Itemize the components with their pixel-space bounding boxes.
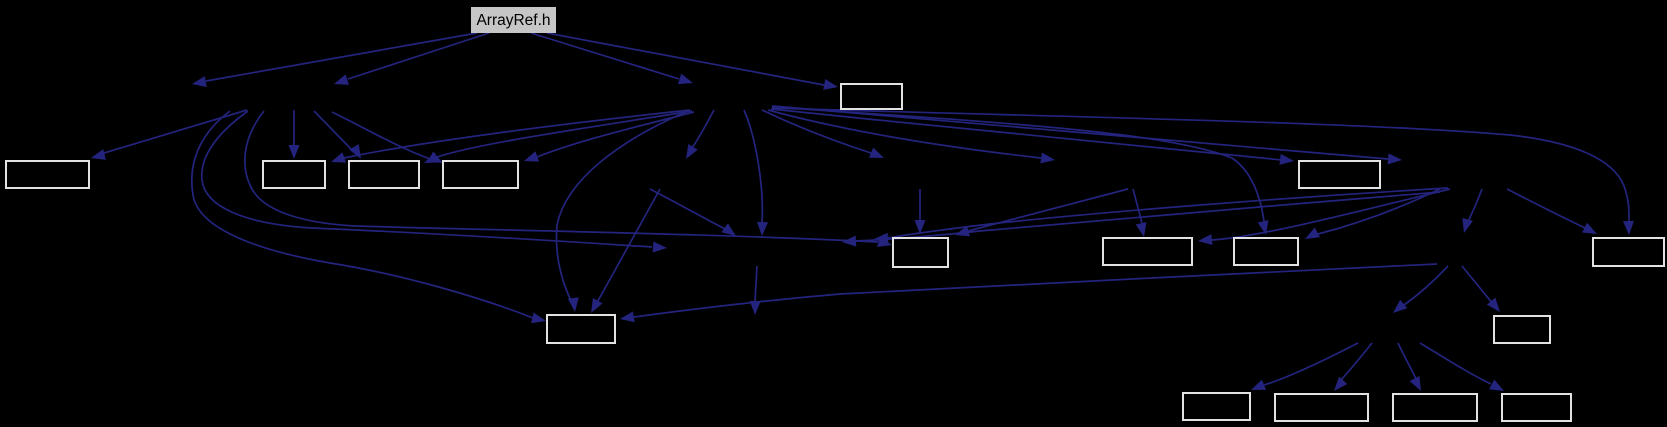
- wire root to node B: [348, 33, 489, 79]
- arrowhead into B3b right: [422, 152, 439, 168]
- box B3c: [443, 161, 518, 188]
- arrowhead into B7a right: [1197, 234, 1212, 246]
- arrowhead into B8 top (curve): [1623, 221, 1634, 235]
- arrowhead into F: [1459, 218, 1473, 234]
- box B11d: [1502, 394, 1571, 421]
- wire N5 to F: [1468, 189, 1482, 222]
- arrowhead into B11a: [1249, 380, 1266, 395]
- wire F to G: [1404, 266, 1448, 305]
- wire C to B9 top: [556, 111, 688, 303]
- box B8: [1593, 238, 1664, 266]
- arrowhead r1: [874, 233, 889, 245]
- wire C to D' top: [744, 110, 762, 222]
- arrowhead into B9 top (from D1): [586, 298, 602, 316]
- wire F to B10: [1462, 266, 1492, 303]
- arrowhead into B9 right: [619, 311, 635, 324]
- wire N5 to arrow r2: [856, 192, 1440, 241]
- wire G to B11d: [1420, 343, 1491, 384]
- wire B to B6 left: [245, 111, 878, 242]
- wire C to N5: [772, 106, 1388, 159]
- wire D1 to B9 top: [594, 189, 660, 308]
- wire B to B2: [104, 110, 247, 153]
- arrowhead into B3c right-top: [522, 151, 539, 166]
- arrowhead into box B5: [823, 79, 839, 92]
- wire N5 to B7a right: [1212, 189, 1450, 240]
- arrowhead into B11c: [1410, 376, 1426, 394]
- wire B to B9 left: [192, 111, 533, 318]
- wire N5 to B7b right: [1318, 189, 1440, 234]
- wire C to B8 curve: [772, 108, 1629, 221]
- arrowhead into B8 top-left: [1582, 223, 1599, 239]
- box B7a: [1103, 238, 1192, 265]
- box B3b: [349, 161, 419, 188]
- svg-text:ArrayRef.h: ArrayRef.h: [476, 12, 550, 29]
- wire G to B11a: [1264, 343, 1358, 385]
- wire N3 to B6: [919, 189, 921, 220]
- wire B to B3b: [314, 111, 352, 150]
- wire C to B3b right: [437, 111, 692, 157]
- box B4: [1299, 161, 1380, 188]
- arrowhead into N3: [869, 148, 886, 164]
- arrowhead into B7b right: [1302, 228, 1320, 244]
- arrowhead into B3c left: [428, 152, 445, 168]
- wire C to N4: [768, 110, 1041, 158]
- box B11c: [1393, 394, 1477, 421]
- arrowhead into B10: [1487, 298, 1504, 316]
- box B2: [6, 161, 89, 188]
- arrowhead into B4 left: [1279, 154, 1294, 167]
- arrowhead into B7a top: [1136, 222, 1150, 238]
- wire B to B3a: [293, 110, 295, 145]
- arrowhead into B3b top-left: [349, 144, 366, 162]
- wire C to B4: [771, 109, 1282, 160]
- wire C to B3c right: [537, 112, 694, 157]
- wire D1 to D' top-left: [650, 189, 725, 229]
- wire N4 to B6 top-right: [968, 189, 1128, 231]
- wire C to B7b top: [772, 107, 1264, 221]
- arrowhead into D' left: [653, 242, 668, 254]
- arrowhead into node C: [678, 74, 695, 89]
- arrowhead into D' top-left (from D1): [721, 223, 739, 240]
- root node ArrayRef.h: [471, 7, 556, 33]
- wire root to node C: [531, 33, 679, 79]
- arrowhead into B7b top: [1258, 220, 1272, 236]
- box B5: [841, 84, 902, 109]
- arrowhead into B11d: [1489, 380, 1507, 396]
- arrowhead into B3a top: [289, 145, 300, 159]
- arrowhead into B9 top-right: [568, 297, 581, 312]
- arrowhead into G: [1389, 300, 1407, 317]
- arrowhead into B6 top-right: [953, 226, 969, 240]
- box B11a: [1183, 393, 1250, 420]
- arrowhead into E: [750, 301, 761, 315]
- box B6: [893, 238, 948, 267]
- arrowhead into B2: [90, 149, 106, 163]
- wire C to D1: [692, 110, 714, 148]
- wire F to B9 right: [634, 264, 1437, 317]
- arrowhead into N5: [1388, 153, 1403, 165]
- wire N4 to B7a top: [1133, 189, 1142, 223]
- arrowhead into D1: [681, 144, 698, 162]
- wire G to B11c: [1398, 343, 1416, 379]
- arrowhead into B3a right-top: [329, 152, 346, 167]
- arrowhead into N4: [1040, 153, 1055, 166]
- wire B to D': [202, 111, 652, 247]
- arrowhead into B6 top: [915, 220, 926, 234]
- box B7b: [1234, 238, 1298, 265]
- arrowhead into B11b: [1330, 377, 1347, 395]
- wire C to B3a right: [344, 110, 690, 158]
- arrowhead into B6 left: [877, 236, 893, 250]
- box B11b: [1275, 394, 1368, 421]
- wire G to B11b: [1341, 343, 1372, 380]
- arrowhead into node A: [191, 76, 207, 89]
- box B10: [1494, 316, 1550, 343]
- wire B to B3c: [332, 112, 430, 159]
- wire C to N3: [762, 110, 871, 153]
- arrowhead into D' top (from C): [757, 222, 768, 236]
- wire root to node A: [206, 33, 477, 81]
- arrowhead into B9 left: [531, 312, 547, 326]
- wire D' to E: [755, 266, 757, 301]
- wire N5 to arrow r1: [888, 188, 1448, 238]
- arrowhead into node B: [332, 74, 349, 89]
- wire N5 to B8 diagonal: [1507, 189, 1585, 228]
- arrowhead r2: [842, 236, 857, 248]
- wire root to box B5: [547, 33, 824, 85]
- box B3a: [263, 161, 325, 188]
- box B9: [547, 315, 615, 343]
